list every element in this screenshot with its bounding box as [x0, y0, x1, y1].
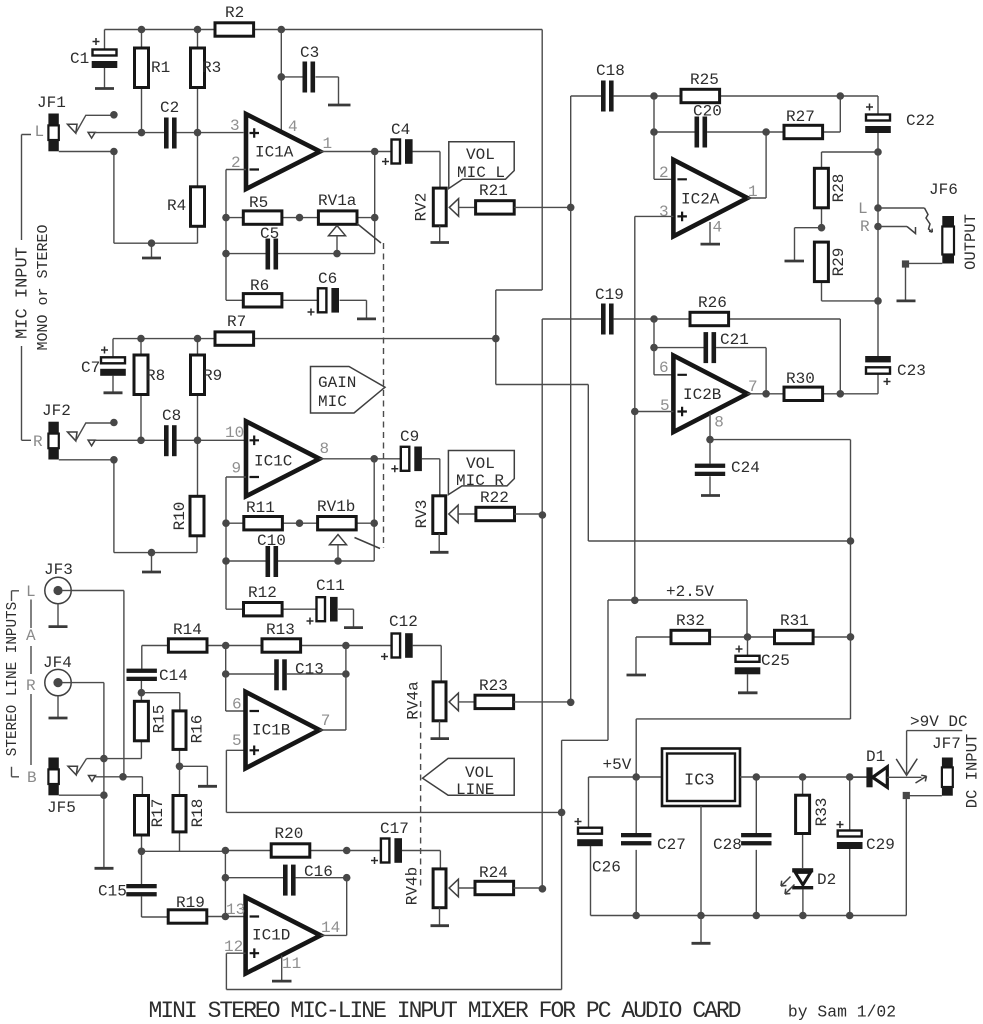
wire JF2 switch: [68, 423, 114, 446]
svg-text:14: 14: [321, 919, 340, 937]
svg-text:2: 2: [659, 164, 669, 182]
svg-text:VOL: VOL: [465, 764, 494, 782]
ground IC2A pin4: [701, 222, 721, 244]
node C14 bottom: [138, 689, 146, 697]
capacitor C21: [654, 331, 766, 394]
capacitor C22: [865, 96, 935, 152]
svg-text:VOL: VOL: [466, 455, 495, 473]
wire top bias rail left: [105, 29, 543, 31]
capacitor C26: [575, 777, 621, 916]
node R5 junctions: [222, 214, 230, 222]
resistor R32: [636, 612, 747, 644]
wire RV1b linkage: [355, 538, 381, 549]
node R19 pin13: [222, 913, 230, 921]
svg-text:C23: C23: [897, 362, 926, 380]
svg-text:R7: R7: [227, 313, 246, 331]
svg-text:R21: R21: [479, 182, 508, 200]
capacitor C3: [281, 44, 338, 104]
wire IC1A output: [320, 151, 392, 153]
resistor R2: [215, 4, 254, 36]
op-amp IC1A: [246, 114, 320, 189]
wire IC2B pin6: [654, 319, 673, 375]
op-amp IC2B: [673, 356, 747, 433]
capacitor C19: [542, 286, 654, 335]
ground main: [692, 916, 711, 944]
capacitor C23: [865, 356, 926, 394]
svg-text:C12: C12: [389, 613, 418, 631]
svg-text:C24: C24: [731, 459, 760, 477]
svg-text:C18: C18: [596, 62, 625, 80]
resistor R26: [654, 294, 840, 394]
node IC1C output: [370, 455, 378, 463]
wire mic R input: [95, 439, 246, 441]
potentiometer RV1b: [317, 498, 374, 530]
ground JF4 column: [95, 867, 114, 870]
resistor R5: [226, 194, 319, 224]
svg-text:C22: C22: [906, 112, 935, 130]
wiper RV3: [449, 505, 476, 523]
wire gang dashed RV1: [383, 243, 385, 548]
wire pin13 column: [224, 851, 226, 917]
resistor R7: [215, 313, 254, 345]
wire IC1C pin9: [226, 477, 246, 609]
resistor R16: [173, 711, 207, 766]
resistor R19: [168, 894, 245, 923]
svg-text:R8: R8: [146, 367, 165, 385]
svg-text:L: L: [35, 123, 45, 141]
node R30 right: [837, 390, 845, 398]
node R26 junction: [650, 315, 658, 323]
svg-text:R24: R24: [479, 864, 508, 882]
svg-text:C6: C6: [318, 270, 337, 288]
node R14 junction: [222, 642, 230, 650]
wiper RV4a: [449, 693, 475, 711]
svg-text:13: 13: [226, 901, 245, 919]
wire JF5 switch: [68, 759, 96, 782]
potentiometer RV4a: [405, 681, 447, 721]
svg-text:STEREO LINE INPUTS: STEREO LINE INPUTS: [5, 602, 21, 756]
node C3 tap: [278, 73, 286, 81]
svg-text:A: A: [26, 627, 36, 645]
wire mix node L riser: [570, 96, 572, 702]
node +2.5V junctions: [631, 597, 639, 605]
svg-text:JF6: JF6: [929, 181, 958, 199]
capacitor C18: [571, 62, 654, 112]
node R27 junction: [762, 128, 770, 136]
ground mic R: [142, 571, 161, 574]
svg-text:3: 3: [659, 203, 669, 221]
svg-text:1: 1: [323, 135, 333, 153]
node IC1A output: [371, 148, 379, 156]
svg-text:VOL: VOL: [466, 146, 495, 164]
jack JF3: [44, 561, 73, 604]
node C2 junctions: [138, 129, 146, 137]
node R7 bias junction: [492, 335, 500, 343]
ground C24: [701, 494, 720, 497]
op-amp IC2A: [673, 160, 747, 237]
node ground rail junctions: [632, 912, 640, 920]
wiper RV1a: [329, 226, 346, 254]
svg-text:C7: C7: [81, 359, 100, 377]
node C22 bottom: [874, 148, 882, 156]
wire +5V rail: [589, 719, 851, 777]
wire IC2B output: [747, 393, 784, 395]
capacitor C5: [226, 225, 375, 270]
svg-text:R11: R11: [246, 499, 275, 517]
svg-text:6: 6: [659, 359, 669, 377]
wire JF7 switch: [896, 731, 962, 783]
wire JF6 R contact: [878, 227, 916, 234]
capacitor C2: [160, 99, 179, 149]
callout VOL LINE: [423, 758, 515, 799]
wire R16 riser: [141, 693, 179, 711]
svg-text:C19: C19: [595, 286, 624, 304]
svg-text:JF5: JF5: [47, 799, 76, 817]
node C21 junction: [650, 344, 658, 352]
node R7 rail junctions: [137, 335, 145, 343]
node R31 left: [744, 633, 752, 641]
wire IC1B output: [320, 646, 346, 731]
node JF1 sleeve: [110, 148, 118, 156]
svg-text:C20: C20: [693, 103, 722, 121]
resistor R21: [476, 182, 571, 214]
svg-text:RV3: RV3: [413, 500, 431, 529]
diode D1: [850, 748, 922, 787]
wire 9V rail: [740, 776, 867, 778]
svg-text:IC1D: IC1D: [252, 927, 290, 945]
wire JF6 sleeve: [897, 260, 943, 301]
svg-text:R9: R9: [203, 367, 222, 385]
svg-text:MIC L: MIC L: [457, 164, 505, 182]
svg-text:C13: C13: [295, 661, 324, 679]
wire feedback riser: [374, 152, 376, 254]
svg-text:RV2: RV2: [413, 193, 431, 222]
ground RV2: [431, 226, 450, 243]
svg-text:7: 7: [321, 712, 331, 730]
jack JF1: [35, 94, 66, 151]
callout VOL MIC L: [449, 142, 514, 189]
wire bias rail jog: [496, 30, 851, 542]
svg-text:R1: R1: [151, 59, 170, 77]
potentiometer RV4b: [404, 867, 447, 908]
resistor R25: [654, 71, 878, 103]
wire C14 top: [140, 646, 142, 702]
svg-text:RV1a: RV1a: [318, 192, 357, 210]
svg-text:R: R: [860, 218, 870, 236]
potentiometer RV2: [413, 188, 447, 226]
ground R32: [627, 637, 647, 675]
ground JF3: [49, 604, 68, 627]
wire IC1D output: [321, 878, 347, 936]
svg-text:RV4a: RV4a: [405, 681, 423, 720]
resistor R9: [191, 339, 223, 497]
wire IC2B pin8: [710, 414, 851, 720]
svg-text:R2: R2: [225, 4, 244, 22]
capacitor C9: [391, 428, 440, 496]
wire feedback riser IC1C: [373, 459, 375, 561]
resistor R10: [171, 496, 204, 552]
svg-text:MONO or STEREO: MONO or STEREO: [35, 224, 52, 350]
svg-text:D1: D1: [866, 748, 885, 766]
capacitor C10: [226, 532, 374, 577]
jack JF2: [33, 402, 71, 460]
wire mix node R riser: [541, 319, 543, 889]
svg-text:R20: R20: [275, 825, 304, 843]
wiper RV2: [449, 199, 475, 217]
wire JF1 switch: [68, 115, 114, 138]
svg-text:3: 3: [230, 117, 240, 135]
capacitor C6: [308, 270, 367, 318]
callout VOL MIC R: [448, 451, 514, 495]
capacitor C13: [226, 659, 346, 690]
ground RV3: [430, 534, 449, 553]
resistor R27: [766, 96, 840, 139]
svg-text:4: 4: [288, 118, 298, 136]
wire IC2A pin3: [635, 216, 674, 600]
jack JF6: [929, 181, 958, 264]
svg-text:R31: R31: [780, 612, 809, 630]
ground C11: [344, 626, 363, 629]
node +5V junction: [632, 773, 640, 781]
svg-text:R3: R3: [202, 59, 221, 77]
svg-text:R: R: [33, 433, 43, 451]
svg-text:10: 10: [225, 424, 244, 442]
resistor R17: [135, 796, 168, 852]
resistor R1: [135, 30, 171, 133]
callout GAIN MIC: [311, 367, 386, 414]
label L A R column: [26, 583, 37, 787]
svg-text:R23: R23: [479, 677, 508, 695]
svg-text:+5V: +5V: [603, 756, 632, 774]
wire JF6 L contact: [878, 208, 932, 232]
svg-text:C26: C26: [592, 859, 621, 877]
ground R16 tap: [180, 766, 218, 786]
svg-text:R33: R33: [813, 798, 831, 827]
node R16 R18 junction: [176, 763, 184, 771]
svg-text:IC1B: IC1B: [252, 722, 290, 740]
svg-text:JF1: JF1: [37, 94, 66, 112]
capacitor C11: [307, 577, 354, 627]
wire JF5 sleeve: [59, 794, 104, 796]
node R11 junctions: [222, 519, 230, 527]
wire R17 R18 join: [142, 850, 226, 852]
svg-text:C27: C27: [657, 836, 686, 854]
resistor R23: [475, 677, 571, 709]
capacitor C16: [225, 863, 346, 896]
svg-text:R27: R27: [786, 108, 815, 126]
svg-text:C16: C16: [304, 863, 333, 881]
capacitor C24: [695, 440, 760, 495]
capacitor C12: [381, 613, 441, 682]
resistor R20: [225, 825, 346, 857]
ground C25: [738, 691, 758, 694]
svg-text:IC1A: IC1A: [255, 144, 294, 162]
svg-text:IC2B: IC2B: [683, 386, 721, 404]
resistor R3: [191, 30, 222, 187]
wire IC1A pin4 riser: [280, 30, 282, 133]
svg-text:5: 5: [232, 732, 242, 750]
svg-text:R6: R6: [250, 277, 269, 295]
capacitor C15: [98, 851, 168, 917]
capacitor C14: [127, 667, 188, 685]
op-amp IC1C: [246, 421, 320, 496]
ground RV4a: [431, 721, 450, 739]
resistor R15: [134, 701, 168, 758]
svg-text:8: 8: [714, 414, 724, 432]
svg-text:IC3: IC3: [684, 772, 715, 791]
wire IC1C output: [320, 458, 401, 460]
wire IC2B pin5: [635, 411, 674, 413]
capacitor C17: [347, 820, 441, 869]
svg-text:C25: C25: [761, 652, 790, 670]
svg-text:R17: R17: [149, 799, 167, 828]
svg-text:D2: D2: [817, 871, 836, 889]
svg-text:R29: R29: [830, 248, 848, 277]
wire IC1B pin5: [226, 749, 245, 751]
capacitor C29: [837, 777, 895, 916]
node JF1 upper contact: [110, 111, 118, 119]
node R25 junctions: [650, 92, 658, 100]
svg-text:C14: C14: [159, 667, 188, 685]
svg-text:RV1b: RV1b: [317, 498, 355, 516]
svg-text:IC1C: IC1C: [254, 453, 292, 471]
svg-text:C28: C28: [713, 836, 742, 854]
node R23 tap: [567, 699, 575, 707]
node C5 junctions: [222, 250, 230, 258]
potentiometer RV1a: [318, 192, 375, 224]
svg-text:C29: C29: [866, 836, 895, 854]
wire JF6 left column: [877, 152, 879, 356]
op-amp IC1B: [246, 692, 320, 769]
svg-text:8: 8: [320, 440, 330, 458]
svg-text:C17: C17: [380, 820, 409, 838]
svg-text:JF3: JF3: [44, 561, 73, 579]
resistor R11: [226, 499, 318, 530]
node C20 junction: [650, 128, 658, 136]
svg-text:JF7: JF7: [932, 735, 961, 753]
svg-text:by Sam 1/02: by Sam 1/02: [788, 1003, 896, 1022]
wire gang dashed RV4: [420, 701, 422, 887]
svg-text:5: 5: [660, 397, 670, 415]
capacitor C8: [162, 407, 181, 456]
node JF2 upper contact: [110, 419, 118, 427]
svg-text:C10: C10: [257, 532, 286, 550]
node R28 R29 junction: [818, 224, 826, 232]
svg-text:L: L: [26, 583, 36, 601]
ground C7: [104, 391, 123, 394]
node C16 junctions: [222, 874, 230, 882]
svg-text:MIC R: MIC R: [456, 472, 504, 490]
svg-text:LINE: LINE: [456, 781, 494, 799]
svg-text:R5: R5: [249, 194, 268, 212]
node JF4 column: [100, 755, 108, 763]
svg-text:C15: C15: [98, 883, 127, 901]
svg-text:C3: C3: [300, 44, 319, 62]
ground C1: [95, 87, 114, 90]
ground R28 R29 tap: [785, 228, 822, 261]
svg-text:C21: C21: [720, 331, 749, 349]
node R2 junctions: [138, 26, 146, 34]
svg-text:RV4b: RV4b: [404, 867, 422, 905]
node C10 junctions: [222, 557, 230, 565]
potentiometer RV3: [413, 496, 446, 534]
svg-text:C4: C4: [391, 121, 410, 139]
capacitor C1: [70, 30, 117, 88]
svg-text:R26: R26: [698, 294, 727, 312]
svg-text:MIC: MIC: [318, 393, 347, 411]
ground IC1D pin11: [272, 956, 292, 982]
wire JF7 sleeve: [903, 792, 942, 916]
svg-text:R15: R15: [151, 705, 169, 734]
wire JF2 sleeve: [59, 460, 197, 572]
wire +2.5V rail: [226, 600, 747, 990]
svg-text:9: 9: [232, 460, 242, 478]
node bias column taps: [847, 537, 855, 545]
svg-text:GAIN: GAIN: [318, 374, 356, 392]
capacitor C25: [735, 637, 790, 692]
wiper RV1b: [330, 535, 347, 562]
resistor R33: [796, 777, 831, 868]
wire ground rail: [591, 915, 907, 917]
resistor R4: [167, 187, 205, 243]
wire R15 contact: [87, 758, 142, 760]
svg-text:C9: C9: [400, 428, 419, 446]
capacitor C4: [382, 121, 440, 188]
bracket mic input group: [22, 135, 32, 441]
svg-text:C11: C11: [316, 577, 345, 595]
node IC2B pin5: [631, 408, 639, 416]
node R30 left: [762, 390, 770, 398]
svg-text:>9V DC: >9V DC: [910, 713, 968, 731]
ground C6: [357, 317, 376, 320]
svg-text:R4: R4: [167, 197, 186, 215]
svg-text:R12: R12: [248, 584, 277, 602]
svg-text:MIC INPUT: MIC INPUT: [14, 247, 33, 339]
svg-text:R30: R30: [786, 370, 815, 388]
resistor R31: [747, 612, 851, 644]
wire IC1B pin6: [226, 646, 246, 712]
svg-text:MINI STEREO MIC-LINE INPUT MIX: MINI STEREO MIC-LINE INPUT MIXER FOR PC …: [149, 998, 741, 1024]
svg-text:OUTPUT: OUTPUT: [962, 214, 980, 270]
diode D2 LED: [781, 868, 836, 915]
svg-text:R22: R22: [480, 489, 509, 507]
node R22 tap: [539, 511, 547, 519]
wire IC2A output: [747, 132, 766, 198]
node R21 tap: [567, 204, 575, 212]
svg-text:B: B: [27, 769, 37, 787]
svg-text:R13: R13: [266, 621, 295, 639]
resistor R24: [475, 864, 542, 895]
wiper RV4b: [449, 879, 475, 897]
svg-text:R32: R32: [676, 612, 705, 630]
svg-text:R14: R14: [173, 621, 202, 639]
svg-text:JF2: JF2: [42, 402, 71, 420]
svg-text:R16: R16: [189, 715, 207, 744]
node JF6 taps: [874, 204, 882, 212]
svg-text:C1: C1: [70, 50, 89, 68]
op-amp IC1D: [246, 897, 321, 973]
svg-text:4: 4: [713, 219, 723, 237]
resistor R6: [226, 277, 318, 307]
svg-text:C2: C2: [160, 99, 179, 117]
wire RV1a linkage: [357, 224, 381, 244]
jack JF4: [43, 654, 72, 696]
regulator IC3: [662, 749, 740, 807]
svg-text:R25: R25: [690, 71, 719, 89]
svg-text:L: L: [858, 200, 868, 218]
jack JF7: [932, 735, 961, 796]
wire IC1D pin12: [226, 952, 245, 954]
